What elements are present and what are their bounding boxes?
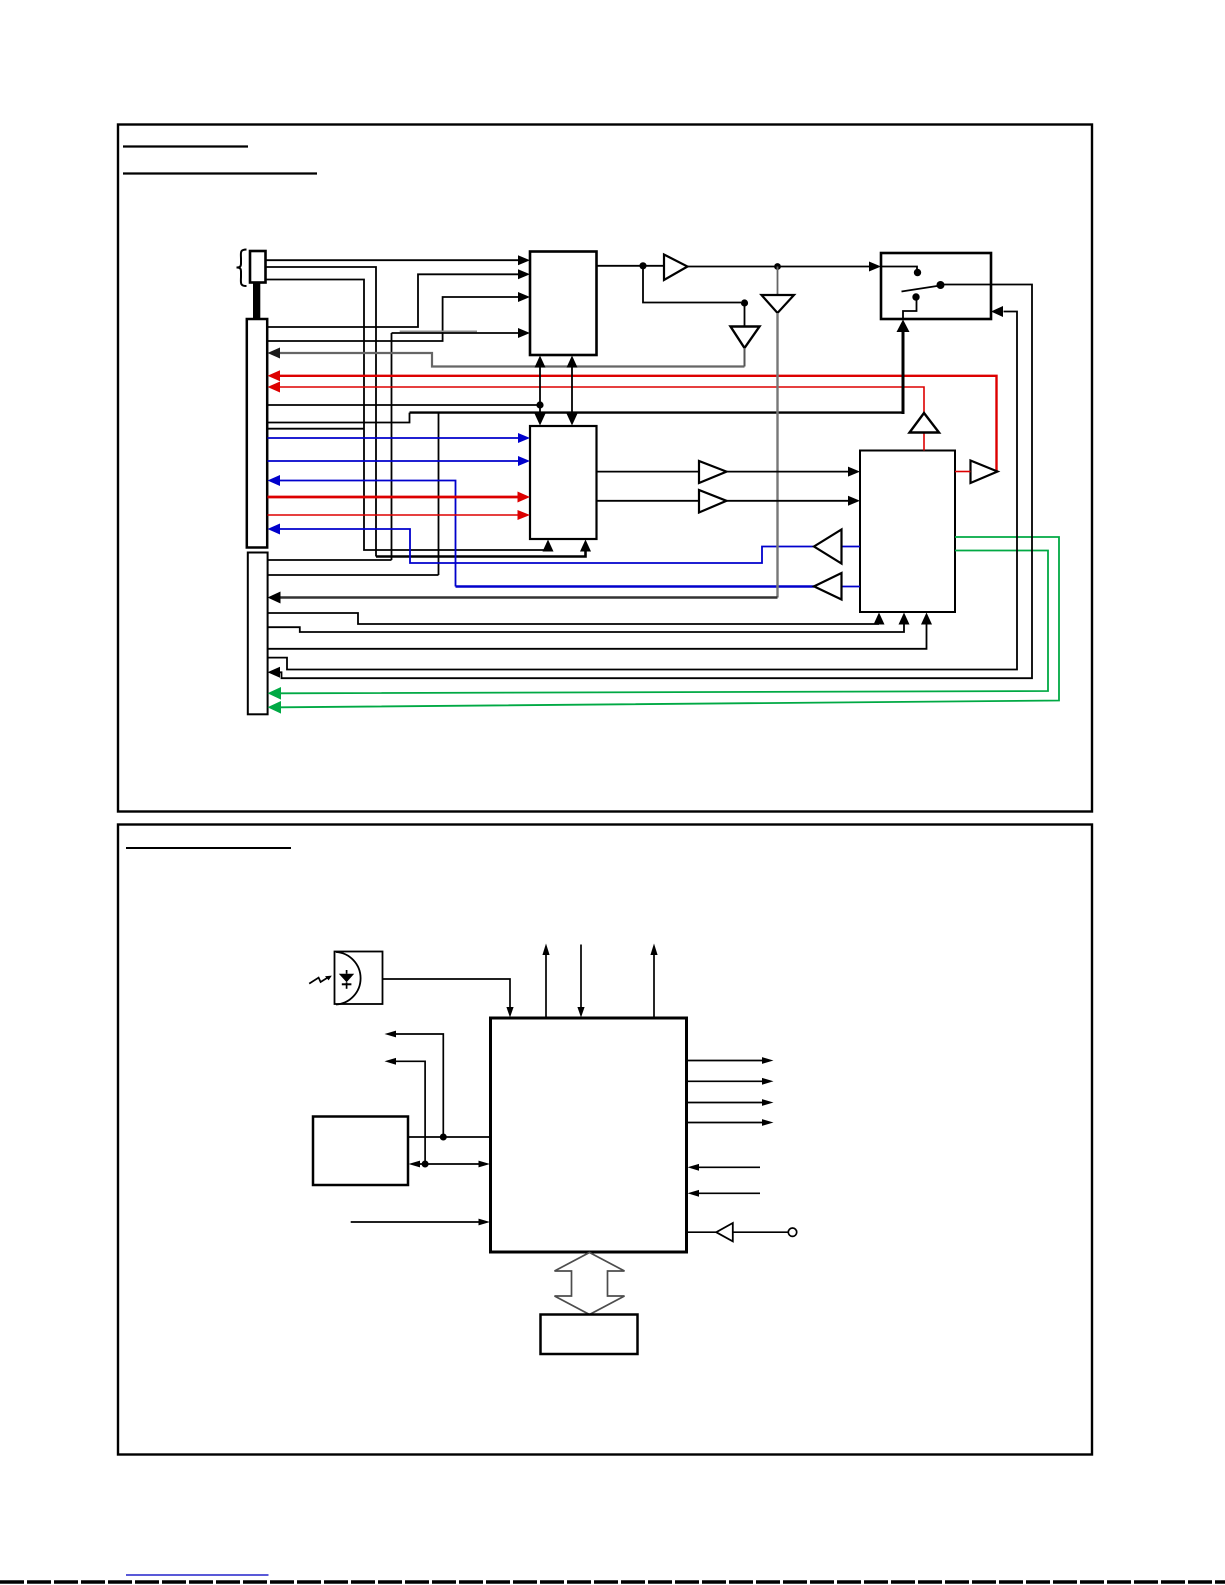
red wire 1 (thick loop from U3 buffer) — [280, 376, 997, 472]
blue return wire 3 from U3 lower buffer — [280, 481, 456, 587]
MCU top output line 2 — [653, 955, 655, 1019]
wire U2 output 2 — [597, 500, 700, 502]
arrowhead into U3 pin2 — [848, 496, 860, 506]
gray drop from T3 to connector B run — [776, 313, 778, 598]
right arrowhead 4 — [762, 1119, 774, 1126]
wire IR receiver to MCU — [383, 979, 511, 1008]
wire T2 apex down to gray run — [744, 348, 746, 367]
footer link underline — [126, 1574, 269, 1576]
figure 2 border frame — [118, 825, 1092, 1455]
dark return run into connector B — [280, 596, 778, 598]
MCU top output line 1 — [545, 955, 547, 1019]
arrowhead up into U3 bottom pin1 — [874, 613, 885, 625]
photodiode cathode bar — [342, 983, 352, 985]
thick cable bar — [253, 283, 260, 319]
arrowhead into U1 pin1 — [518, 255, 530, 265]
buffer T1 — [664, 255, 688, 281]
switch contact dot c — [912, 293, 919, 300]
green arrowhead A into connector B — [268, 687, 282, 700]
wire: connector A to U1 input 3 — [268, 297, 519, 341]
wire: connector A/B to switch box bottom — [268, 413, 410, 423]
MCU right input 1 — [699, 1166, 761, 1168]
footer dashed rule — [0, 1580, 1225, 1584]
wire: connector A to junction on U1-U2 link — [268, 404, 541, 406]
reset buffer line from MCU — [687, 1231, 717, 1233]
wire: U1 pin4 vertical down to net — [391, 333, 393, 560]
green arrowhead B into connector B — [268, 701, 282, 714]
link2 arrowhead down into U2 — [567, 414, 578, 426]
arrowhead up into switch box bottom — [897, 320, 910, 333]
right arrowhead 3 — [762, 1099, 774, 1106]
right arrowhead 2 — [762, 1078, 774, 1085]
thick blue run to U3 triangle T5 — [456, 585, 815, 588]
title underline 2 — [123, 172, 317, 174]
blue arrowhead into U2 pin2 — [518, 456, 530, 466]
wire connector B to switch box right — [268, 312, 1018, 670]
MCU top input line — [580, 945, 582, 1008]
link2 arrowhead up into U1 — [567, 356, 578, 368]
red wire 4 into U2 — [268, 514, 519, 516]
junction dot osc wire 1 — [440, 1134, 447, 1141]
wire switch box to connector B — [279, 285, 1032, 679]
arrowhead into U3 pin1 — [848, 467, 860, 477]
wire: U1 input 4 net black segment — [392, 332, 519, 334]
stub dot to T2 — [744, 303, 746, 327]
MCU right output 3 — [687, 1102, 763, 1104]
junction dot on T1 output — [774, 263, 781, 270]
U1-U2 link line 2 — [571, 366, 573, 415]
left arrowhead into MCU 1 — [688, 1164, 700, 1171]
switch inside wire a — [881, 267, 917, 270]
wire Ta to U3 — [727, 471, 849, 473]
wire S1: sensor to U1 input 1 — [266, 259, 519, 261]
blue arrowhead 3 into connector A — [268, 475, 281, 486]
IR lens arc — [336, 952, 361, 1005]
arrowhead up into U2 bottom pin b — [580, 540, 591, 552]
switch contact dot b — [937, 281, 945, 289]
branch up to left output 2 — [396, 1061, 426, 1164]
left arrowhead output 2 — [385, 1058, 397, 1065]
brace left of sensor connector — [237, 250, 247, 287]
photodiode anode lead — [346, 970, 348, 974]
connector A (upper) — [247, 319, 267, 548]
wire U2 output 1 — [597, 471, 700, 473]
arrowhead into U1 pin4 — [518, 328, 530, 338]
buffer T4 (left) — [814, 530, 842, 564]
wire S3 branch to connector A — [268, 428, 365, 430]
green wire B from U3 — [281, 537, 1059, 707]
blue wire 2 into U2 — [268, 460, 519, 462]
blue arrowhead 4 into connector A — [268, 524, 281, 535]
arrowhead into switch box left — [869, 262, 881, 272]
wire: T1 output run to switch — [688, 266, 870, 268]
red arrowhead into U2 pin3 — [518, 492, 531, 503]
buffer Tb — [699, 490, 727, 513]
wire oscillator to MCU 2 — [418, 1163, 480, 1165]
buffer T5 (left) — [814, 573, 842, 600]
memory box — [541, 1315, 638, 1355]
blue stub U3 to T5 — [842, 586, 861, 588]
photodiode cathode lead — [346, 982, 348, 989]
thick riser into switch box — [902, 331, 905, 414]
buffer Ta — [699, 461, 727, 483]
triangle above U3 (up) — [910, 413, 940, 433]
wire U3 bottom pin2 to connector B — [268, 624, 905, 632]
branch from U1 output dot down — [643, 266, 741, 303]
MCU right output 4 — [687, 1122, 763, 1124]
title underline 1 — [123, 145, 248, 147]
wire Tb to U3 — [727, 500, 849, 502]
wire S2: sensor to U2 bottom via left drop — [266, 267, 376, 557]
wire: connector B to pin4 net — [268, 559, 392, 561]
wire S2 thick bottom run — [376, 551, 586, 557]
green wire A from U3 — [281, 551, 1048, 694]
wire U3 bottom pin3 to connector B — [268, 624, 927, 649]
red stub U3 to T6 — [955, 471, 971, 473]
arrowhead into U1 pin3 — [518, 292, 530, 302]
arrowhead up 1 — [542, 944, 549, 956]
inverter T2 (down) — [731, 327, 760, 349]
U1-U2 link line 1 — [539, 366, 541, 415]
link1 arrowhead up into U1 — [535, 356, 546, 368]
wire: connector A to U1 input 2 — [268, 274, 519, 327]
switch contact dot a — [914, 269, 921, 276]
reset line to pad — [733, 1231, 788, 1233]
wire: U1 input 4 net gray segment — [400, 330, 477, 332]
switch lever — [902, 286, 938, 292]
junction dot on U1 output — [639, 262, 646, 269]
red arrowhead into U2 pin4 — [518, 510, 531, 520]
link1 arrowhead down into U2 — [535, 414, 546, 426]
red wire 2 (to U3 top triangle) — [280, 387, 925, 413]
arrowhead up into U2 bottom pin a — [543, 540, 554, 552]
reset pad circle — [788, 1228, 796, 1236]
wire U3 bottom pin1 to connector B — [268, 613, 880, 624]
bidirectional bus arrow — [555, 1253, 625, 1315]
arrowhead left into connector B mid — [268, 667, 281, 678]
red arrowhead 1 into connector A — [268, 370, 281, 381]
right arrowhead into MCU lower left — [479, 1219, 491, 1226]
arrowhead up 2 — [650, 944, 657, 956]
buffer T6 (right of U3) — [971, 461, 998, 484]
gray return wire into connector A — [280, 353, 745, 367]
left arrowhead into oscillator — [409, 1161, 421, 1168]
junction dot osc wire 2 — [422, 1161, 429, 1168]
IR receiver box — [335, 952, 383, 1005]
wire: connector B leg of switch net — [268, 574, 439, 576]
arrowhead left into switch box right — [991, 306, 1003, 317]
wire: U1 output to switch box — [597, 265, 665, 267]
zigzag arrow tip — [325, 976, 332, 981]
junction dot above T2 — [741, 299, 748, 306]
reset buffer triangle — [716, 1223, 733, 1241]
incoming IR zigzag — [309, 977, 328, 983]
right arrowhead 1 — [762, 1057, 774, 1064]
blue stub U3 to T4 — [842, 546, 861, 548]
gray drop from T1 output dot — [777, 267, 779, 296]
wire S3: sensor drop to connector A and U2 bottom — [266, 280, 548, 552]
left arrowhead output 1 — [385, 1031, 397, 1038]
switch box S1 — [881, 253, 991, 319]
input wire into MCU lower left — [351, 1221, 479, 1223]
arrowhead down into MCU top — [506, 1007, 513, 1018]
MCU right output 1 — [687, 1060, 763, 1062]
figure 1 border frame — [118, 125, 1092, 812]
figure 2 title underline — [126, 847, 291, 849]
red wire 3 thick into U2 — [268, 496, 519, 499]
inverter T3 (down) — [762, 295, 795, 313]
switch inside wire c — [903, 300, 917, 319]
arrowhead gray into connector A — [268, 348, 281, 359]
wire oscillator to MCU 1 — [408, 1136, 491, 1138]
photodiode symbol — [339, 974, 354, 983]
branch up to left output 1 — [396, 1034, 444, 1137]
connector B (lower) — [248, 553, 268, 715]
arrowhead down into MCU — [577, 1007, 584, 1018]
blue wire 1 into U2 — [268, 437, 519, 439]
block U1 (top middle) — [530, 252, 597, 356]
red arrowhead 2 into connector A — [268, 382, 281, 393]
block U3 (right) — [860, 451, 955, 613]
blue return wire 4 from U3 upper buffer — [280, 529, 815, 563]
oscillator box — [313, 1117, 408, 1186]
MCU block — [491, 1018, 687, 1252]
arrowhead into U1 pin2 — [518, 269, 530, 279]
MCU right input 2 — [699, 1192, 761, 1194]
right arrowhead into MCU left — [479, 1161, 491, 1168]
arrowhead up into U3 bottom pin2 — [899, 613, 910, 625]
arrowhead up into U3 bottom pin3 — [921, 613, 932, 625]
arrowhead into connector B top — [268, 592, 281, 604]
block U2 (middle) — [530, 426, 597, 539]
blue arrowhead into U2 pin1 — [518, 433, 530, 443]
MCU right output 2 — [687, 1080, 763, 1082]
red stub triangle to U3 top — [923, 433, 925, 451]
left arrowhead into MCU 2 — [688, 1190, 700, 1197]
branch riser to connector B — [438, 413, 440, 575]
junction dot on U1-U2 link — [536, 401, 543, 408]
sensor head box P1 — [250, 251, 266, 283]
wire run to switch riser — [410, 411, 904, 413]
